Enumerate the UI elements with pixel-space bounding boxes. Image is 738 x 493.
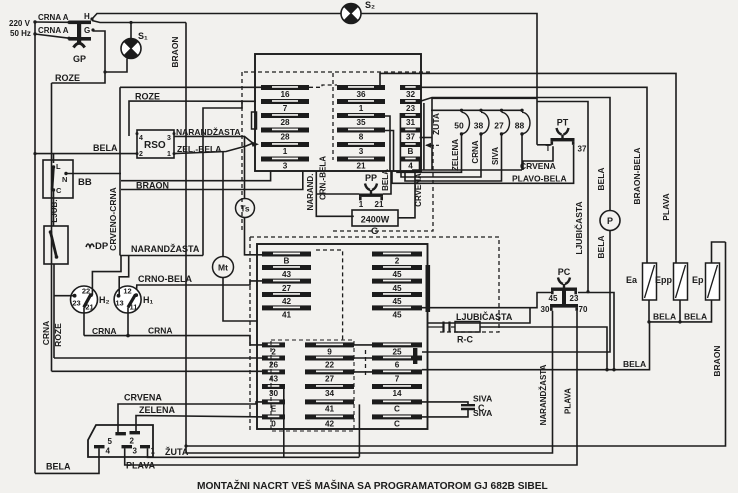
node H (90, 17, 93, 20)
contact C bottom-right col (372, 414, 422, 428)
pin4 dot (136, 132, 139, 135)
svg-text:Ep: Ep (692, 275, 704, 285)
svg-text:BRAON-BELA: BRAON-BELA (632, 147, 642, 204)
wire row 27-7 (354, 371, 372, 373)
svg-text:2: 2 (139, 151, 143, 158)
contact 27 lower-left col (262, 279, 311, 293)
wire 8 down (385, 131, 394, 172)
wire bela mid (422, 322, 650, 370)
svg-text:12: 12 (123, 287, 131, 296)
svg-text:35: 35 (356, 118, 366, 127)
wire BB to DP (53, 190, 55, 226)
svg-text:23: 23 (406, 104, 416, 113)
contact 0 bottom-left col (262, 414, 285, 428)
svg-text:CRVENA: CRVENA (520, 161, 556, 171)
svg-text:45: 45 (549, 294, 558, 303)
junction rail BELA (33, 152, 36, 155)
svg-text:PLAVA: PLAVA (661, 193, 671, 221)
wire ROZE to block (129, 101, 256, 136)
resistor of R-C (455, 322, 480, 333)
svg-text:CRVENA: CRVENA (414, 173, 423, 207)
svg-text:CRNA: CRNA (471, 140, 480, 163)
pressure switch PC (551, 267, 577, 294)
svg-text:38: 38 (474, 121, 484, 131)
wire PC 23 right (578, 293, 614, 370)
svg-text:LJUBIČASTA: LJUBIČASTA (573, 201, 584, 254)
svg-text:43: 43 (282, 270, 292, 279)
svg-text:H₁: H₁ (143, 295, 153, 305)
svg-text:CRNA: CRNA (148, 326, 173, 336)
contact 42 lower-left col (262, 292, 311, 306)
svg-text:16: 16 (280, 90, 290, 99)
dashed outline lower box (249, 237, 251, 431)
contact 26 bottom-left col (262, 356, 285, 370)
contact 27 bottom-mid col (305, 369, 354, 383)
svg-text:0: 0 (271, 420, 276, 429)
relay RSO (137, 130, 174, 158)
motor pin 5 (115, 432, 126, 435)
svg-text:70: 70 (579, 305, 588, 314)
dashed jog to lower block (316, 250, 343, 341)
svg-text:B: B (284, 257, 290, 266)
wire braon left vertical (185, 23, 187, 454)
motor pin 3 (122, 445, 133, 448)
wire thermo bottom (412, 169, 522, 171)
wire H2 23 to DP chain (54, 295, 75, 297)
contact 2 lower-right col (372, 252, 422, 266)
svg-text:NARAND.: NARAND. (306, 174, 315, 211)
svg-text:RSO: RSO (144, 140, 166, 151)
svg-text:C: C (478, 403, 485, 413)
svg-text:G: G (84, 26, 90, 35)
svg-text:28: 28 (280, 133, 290, 142)
svg-text:88: 88 (515, 121, 525, 131)
pressure switch PP (359, 173, 383, 200)
wire C row5 (422, 402, 468, 405)
wire ljubicasta top (537, 102, 588, 292)
svg-text:ZELENA: ZELENA (451, 139, 460, 171)
node G (91, 28, 94, 31)
wire crveno-crna vertical (119, 87, 121, 255)
svg-text:BELA: BELA (653, 312, 676, 322)
junction G branch (103, 70, 106, 73)
svg-text:PLAVA: PLAVA (564, 388, 573, 414)
terminal 220V (33, 20, 36, 23)
junction bela pc (612, 368, 615, 371)
svg-text:5: 5 (108, 437, 113, 446)
thermostat Ts (236, 199, 255, 218)
svg-text:41: 41 (325, 405, 335, 414)
contact 4 upper-right col (400, 157, 421, 171)
contact 1 upper-left col (261, 142, 309, 156)
wire BB N to vertical (66, 173, 121, 175)
wire T stub (537, 144, 552, 146)
wire thermostat box (432, 98, 537, 170)
thermostat contact 88 (515, 109, 530, 136)
motor pin 2 (130, 431, 141, 434)
svg-text:GP: GP (73, 54, 86, 64)
arrow to B contact (426, 144, 440, 146)
contact 3 upper-mid col (337, 142, 385, 156)
svg-text:BRAON: BRAON (170, 36, 180, 67)
svg-text:43: 43 (269, 375, 279, 384)
wire H to S2 (92, 14, 341, 20)
svg-text:BELA: BELA (623, 359, 646, 369)
wire CRNA A top (35, 21, 69, 23)
svg-text:MONTAŽNI NACRT VEŠ MAŠINA SA: MONTAŽNI NACRT VEŠ MAŠINA SA PROGRAMATOR… (197, 479, 548, 492)
svg-text:T: T (546, 144, 551, 153)
svg-text:C: C (394, 420, 400, 429)
svg-text:NARANDŽASTA: NARANDŽASTA (131, 243, 200, 254)
wire RSO3 narandzasta (174, 136, 252, 142)
svg-text:PP: PP (365, 173, 377, 183)
svg-text:2: 2 (130, 437, 135, 446)
wire BB chain top (53, 154, 55, 163)
svg-text:Epp: Epp (655, 275, 673, 285)
svg-text:25: 25 (392, 348, 402, 357)
wire S2 to PT drop (361, 14, 537, 145)
svg-text:ROZE: ROZE (55, 73, 80, 83)
wire CRNA bottom (84, 336, 262, 345)
wire H1 13 feed (119, 256, 129, 296)
wire BELA rail to RSO (35, 153, 137, 155)
motor Mt (213, 257, 234, 278)
contact 34 bottom-mid col (305, 384, 354, 398)
svg-text:50: 50 (454, 121, 464, 131)
actuator rect on block edge (252, 112, 257, 129)
wire heater right (397, 217, 399, 219)
contact 16 upper-left col (261, 85, 309, 99)
BB contacts (52, 162, 68, 195)
programmer block upper (255, 54, 421, 171)
wire S1 bottom lead (105, 59, 127, 73)
junction ea bela (647, 320, 650, 323)
contact 1 upper-mid col (337, 99, 385, 113)
svg-text:L: L (56, 162, 61, 171)
wire BRAON (121, 171, 303, 190)
svg-text:8: 8 (359, 133, 364, 142)
svg-text:PLAVO-BELA: PLAVO-BELA (512, 174, 567, 184)
svg-text:30: 30 (269, 389, 279, 398)
wire H2 21 down (83, 307, 85, 335)
contact 30 bottom-left col (262, 384, 285, 398)
svg-text:220 V: 220 V (9, 19, 31, 28)
svg-text:CRNA: CRNA (41, 321, 51, 346)
svg-text:NARANDŽASTA: NARANDŽASTA (539, 364, 548, 425)
svg-text:CRVENA: CRVENA (124, 393, 162, 403)
svg-text:13: 13 (115, 299, 123, 308)
svg-text:Mt: Mt (218, 263, 228, 273)
contact 45 lower-right col (372, 265, 422, 279)
svg-text:4: 4 (106, 447, 111, 456)
contact 42 bottom-mid col (305, 414, 354, 428)
svg-text:1: 1 (359, 200, 364, 209)
wire Ts riser (244, 136, 246, 198)
DP contact blade (49, 230, 59, 259)
svg-text:R-C: R-C (457, 335, 473, 345)
wire row 22-6 (354, 357, 372, 359)
svg-text:H₂: H₂ (99, 295, 110, 305)
contact 7 upper-left col (261, 99, 309, 113)
wire H2 22 feed (92, 256, 121, 296)
svg-text:PT: PT (557, 118, 569, 128)
wire G to S1 and ROZE (52, 31, 106, 83)
pin2 dot (136, 152, 139, 155)
wire PLAVA motor (125, 311, 577, 465)
svg-text:BRAON: BRAON (712, 345, 722, 376)
pump P (600, 211, 620, 231)
svg-text:BELA: BELA (46, 462, 71, 472)
wire ea up (648, 262, 650, 264)
contact 43 bottom-left col (262, 369, 285, 383)
svg-text:CRNA A: CRNA A (38, 13, 69, 22)
thermostat contact 50 (454, 109, 469, 136)
contact 36 upper-mid col (337, 85, 385, 99)
svg-text:27: 27 (494, 121, 504, 131)
svg-text:42: 42 (325, 420, 335, 429)
svg-text:28: 28 (280, 118, 290, 127)
svg-text:C: C (56, 186, 62, 195)
wire braon right (186, 242, 726, 446)
wire SIVA therm (405, 134, 502, 181)
svg-text:2: 2 (271, 348, 276, 357)
wire ROZE left drop (51, 83, 53, 371)
svg-text:7: 7 (395, 375, 400, 384)
svg-text:BELA: BELA (596, 167, 606, 190)
svg-text:3: 3 (283, 162, 288, 171)
svg-text:26: 26 (269, 361, 279, 370)
signal lamp S1 (121, 38, 141, 58)
svg-text:45: 45 (392, 270, 402, 279)
dashed outline upper left (241, 72, 243, 231)
svg-text:SIVA: SIVA (473, 394, 492, 404)
contact 35 upper-mid col (337, 113, 385, 127)
contact 41 bottom-mid col (305, 399, 354, 413)
svg-text:36: 36 (356, 90, 366, 99)
wire P bottom (422, 231, 610, 353)
svg-text:ZELENA: ZELENA (139, 405, 176, 415)
wire NARANDZASTA (120, 255, 203, 257)
svg-text:21: 21 (85, 303, 93, 312)
svg-text:37: 37 (406, 133, 416, 142)
dashed outline lower right (250, 237, 499, 332)
pin3 dot (173, 132, 176, 135)
junction braon corner (184, 444, 187, 447)
svg-text:23: 23 (72, 299, 80, 308)
wire BELA motor (35, 448, 99, 473)
svg-text:B: B (408, 147, 414, 156)
wire T down loop (523, 146, 553, 170)
wire Ep top (712, 242, 726, 263)
svg-text:37: 37 (578, 145, 587, 154)
wire epp down (679, 300, 681, 322)
svg-text:BELA: BELA (596, 235, 606, 258)
thermostat contact 38 (474, 109, 489, 136)
heating element Ea (643, 263, 657, 300)
contact 7 bottom-right col (372, 369, 422, 383)
contact 28 upper-left col (261, 128, 309, 142)
wire 23 right (421, 98, 610, 211)
svg-text:1: 1 (151, 447, 156, 456)
signal lamp H2 (71, 286, 110, 313)
wire PP left (316, 193, 359, 195)
wire right col inner box b (399, 113, 401, 170)
motor connector block (88, 425, 153, 457)
wire CRVENA vert (398, 170, 415, 218)
svg-text:2400W: 2400W (361, 215, 390, 225)
svg-text:ROZE: ROZE (135, 92, 160, 102)
svg-text:LJUBIČASTA: LJUBIČASTA (456, 311, 513, 322)
contact 2 bottom-left col (262, 342, 285, 356)
wire zuta 37 tap (420, 137, 433, 139)
wire bela bus (649, 300, 712, 322)
dashed seg 25 (365, 350, 367, 375)
contact 31 upper-right col (400, 113, 421, 127)
svg-text:H: H (84, 12, 90, 21)
svg-text:1: 1 (359, 104, 364, 113)
svg-text:1: 1 (283, 147, 288, 156)
wire CRVENA therm (521, 134, 523, 170)
wire C row6 (422, 409, 468, 417)
contact 21 upper-mid col (337, 157, 385, 171)
contact 32 upper-right col (400, 85, 421, 99)
contact 41 lower-left col (262, 305, 311, 319)
signal lamp H1 (114, 286, 153, 313)
contact 22 bottom-mid col (305, 356, 354, 370)
svg-text:21: 21 (356, 162, 366, 171)
contact 45 lower-right col (372, 279, 422, 293)
wire ZELENA therm (397, 134, 462, 172)
svg-text:CRNA A: CRNA A (38, 26, 69, 35)
contact 3 upper-left col (261, 157, 309, 171)
contact 28 upper-left col (261, 113, 309, 127)
wire H braon (92, 21, 186, 23)
dashed outline upper (244, 71, 430, 73)
svg-text:9: 9 (327, 348, 332, 357)
switch GP (67, 21, 91, 48)
svg-text:27: 27 (282, 284, 292, 293)
bus bar 25-6 (413, 348, 417, 364)
programmer block lower (257, 244, 428, 429)
svg-text:45: 45 (392, 284, 402, 293)
svg-text:21: 21 (375, 200, 384, 209)
wire 26 row (54, 357, 262, 359)
svg-text:BELA: BELA (381, 169, 390, 191)
wire H1 11 down (127, 307, 129, 335)
svg-text:3: 3 (133, 447, 138, 456)
contact C bottom-right col (372, 399, 422, 413)
svg-text:31: 31 (406, 118, 416, 127)
wire RSO1 zelbela (174, 144, 252, 154)
contact 8 upper-mid col (337, 128, 385, 142)
wire CRNA therm (401, 134, 481, 177)
heating element Ep (706, 263, 720, 300)
wire CRNA A bottom (35, 34, 69, 38)
svg-text:C: C (394, 405, 400, 414)
wire CRNO-BELA (136, 281, 262, 294)
contact 25 bottom-right col (372, 342, 422, 356)
wire 43 row (52, 370, 263, 372)
svg-text:N: N (62, 175, 67, 184)
wire 41 drop (358, 404, 360, 456)
svg-text:ROZE: ROZE (53, 323, 63, 347)
dashed 16-36 jog (309, 85, 337, 87)
svg-text:S₂: S₂ (365, 0, 375, 10)
wire 45 to PC (422, 293, 552, 308)
wire bar16 left (120, 86, 261, 88)
motor pin 1 (140, 445, 150, 448)
svg-text:6: 6 (395, 361, 400, 370)
pin1 dot (173, 152, 176, 155)
wire 36 up right (380, 73, 676, 263)
wire crn-bela riser (121, 171, 271, 181)
switch DP (44, 226, 68, 264)
svg-text:50 Hz: 50 Hz (10, 29, 31, 38)
svg-text:11: 11 (130, 303, 138, 312)
svg-text:45: 45 (392, 297, 402, 306)
junction crna (126, 334, 130, 338)
switch BB (43, 160, 73, 198)
contact B upper-right col (400, 142, 421, 156)
svg-text:34: 34 (325, 389, 335, 398)
svg-text:BELA: BELA (93, 143, 118, 153)
motor pin 4 (94, 445, 105, 448)
wire CRVENA motor (118, 402, 262, 432)
junction epp bela (678, 320, 681, 323)
wire 32 right (421, 87, 647, 263)
svg-text:4: 4 (139, 135, 143, 142)
wire contact 4 drop (419, 161, 421, 170)
wire S1 top lead (130, 23, 132, 39)
wire ZUTA motor (148, 448, 360, 457)
contact 37 upper-right col (400, 128, 421, 142)
wire Mt bottom (223, 278, 257, 322)
contact 45 lower-right col (372, 305, 422, 319)
contact 23 upper-right col (400, 99, 421, 113)
wire R-C loop (480, 327, 607, 370)
wire narandzasta riser top (203, 101, 242, 255)
wire 30 drop (283, 387, 285, 457)
contact E bottom-left col (262, 399, 285, 413)
contact 9 bottom-mid col (305, 342, 354, 356)
svg-text:22: 22 (82, 287, 90, 296)
bus bar 45 group (426, 265, 431, 312)
junction bela rc (605, 368, 608, 371)
wire left rail (34, 22, 36, 473)
svg-text:PC: PC (558, 267, 571, 277)
svg-text:Ea: Ea (626, 275, 638, 285)
contact 6 bottom-right col (372, 356, 422, 370)
contact B lower-left col (262, 252, 311, 266)
label DP with squiggle (86, 241, 109, 252)
svg-text:ŽUTA: ŽUTA (430, 113, 441, 135)
svg-text:BELA: BELA (684, 312, 707, 322)
contact 43 lower-left col (262, 265, 311, 279)
thermostat contact 27 (494, 109, 509, 136)
wire PT 37 down plavo-bela (392, 145, 574, 184)
arrow into contact 1 (251, 141, 259, 147)
thermal cutout PT (551, 118, 575, 145)
svg-text:CRNO-BELA: CRNO-BELA (138, 274, 192, 284)
junction ljub pc (586, 290, 589, 293)
wire ZELENA motor (136, 416, 262, 432)
svg-text:23: 23 (570, 294, 579, 303)
wire right col inner box a (423, 103, 425, 170)
wire Ts bottom to B (245, 218, 263, 255)
capacitor C (461, 405, 475, 409)
junction S1 top (129, 21, 132, 24)
wire 35 down (385, 116, 390, 171)
